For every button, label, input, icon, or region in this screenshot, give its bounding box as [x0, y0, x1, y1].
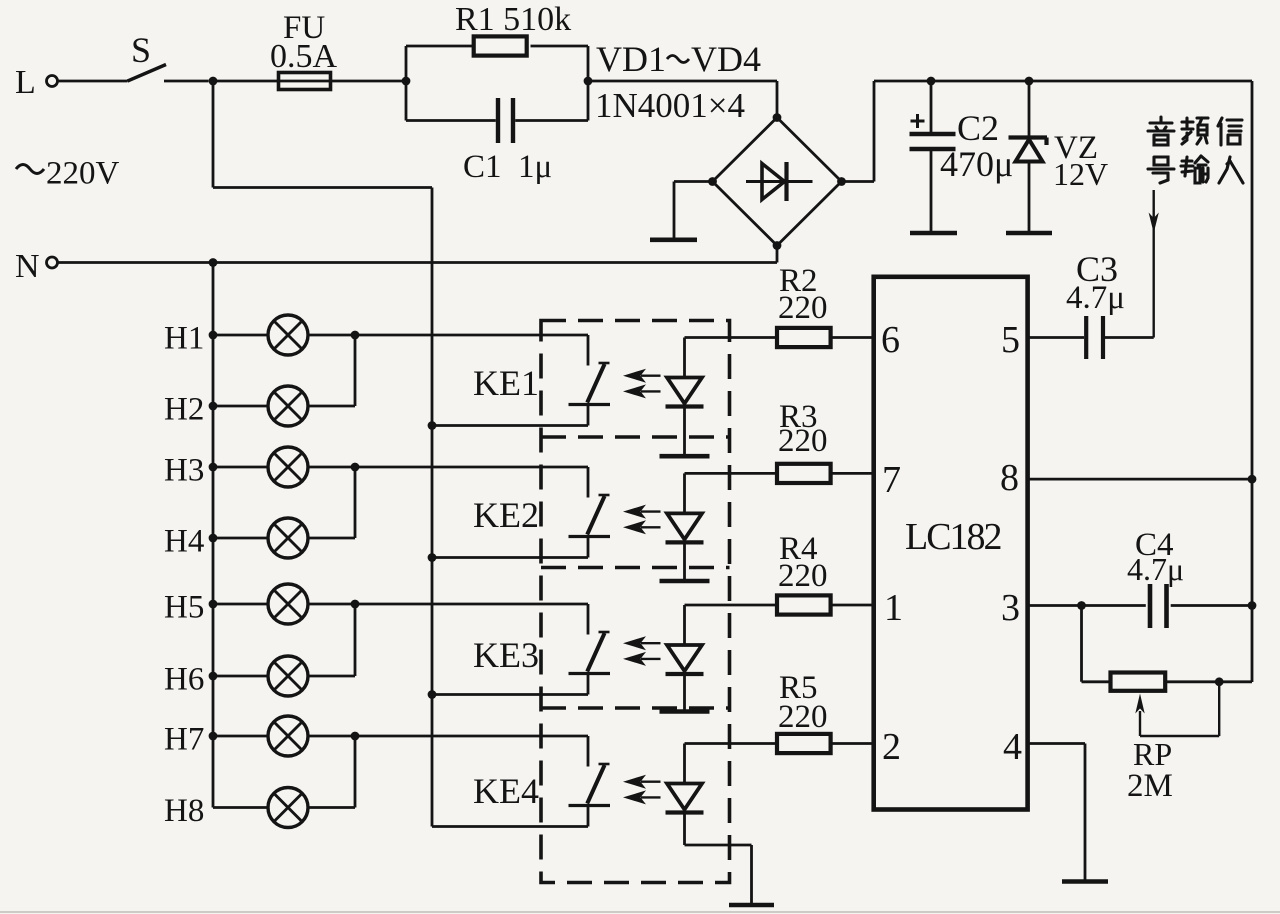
node N / lamp bus [209, 258, 218, 267]
wire L-branch down [212, 81, 215, 188]
wire L to switch [58, 80, 128, 83]
wire R5 to IC [831, 742, 874, 745]
resistor R2 220 [777, 328, 831, 347]
capacitor C4 4.7u [1148, 584, 1153, 628]
svg-text:H8: H8 [164, 793, 204, 829]
svg-text:12V: 12V [1053, 156, 1108, 192]
svg-text:4.7μ: 4.7μ [1066, 280, 1125, 316]
ground bar pin4 [1062, 879, 1108, 884]
wire lamp-pair join H1H2 [354, 335, 357, 406]
opto LED D2 [683, 473, 686, 513]
svg-text:3: 3 [1001, 587, 1020, 629]
svg-text:220: 220 [778, 290, 828, 326]
audio arrow head [1149, 213, 1159, 234]
opto arrows KE1 [623, 369, 646, 383]
wire KE2 switch to L-bus [432, 556, 588, 559]
svg-text:KE3: KE3 [473, 635, 539, 675]
svg-text:H7: H7 [164, 722, 204, 758]
wire lamps to KE3 switch [355, 603, 588, 606]
wire to bridge top [588, 80, 777, 83]
svg-text:RP: RP [1133, 736, 1172, 772]
capacitor C3 4.7u [1084, 316, 1088, 359]
dashed divider KE2/KE3 [541, 566, 730, 570]
bridge rectifier VD1-VD4 diamond [713, 118, 842, 246]
svg-text:H3: H3 [164, 453, 204, 489]
wire LED1 anode to R2 [685, 336, 778, 339]
resistor R4 220 [777, 595, 831, 614]
svg-text:2M: 2M [1127, 768, 1173, 804]
svg-text:S: S [131, 30, 151, 70]
wire R2 to IC [831, 336, 874, 339]
svg-text:4.7μ: 4.7μ [1127, 551, 1184, 587]
node H1 bus [209, 331, 218, 340]
svg-text:R1 510k: R1 510k [455, 1, 571, 38]
terminal N [47, 257, 58, 268]
resistor R3 220 [777, 464, 831, 483]
wire KE1 switch to L-bus [432, 424, 588, 427]
wire bridge-left to ground [674, 180, 713, 183]
LED D1 cathode to ground bar [683, 407, 686, 455]
dashed divider KE1/KE2 [541, 435, 730, 439]
svg-text:L: L [15, 64, 36, 101]
svg-text:7: 7 [882, 459, 901, 501]
wire lamps to KE2 switch [355, 466, 588, 469]
bridge node bottom [773, 241, 782, 250]
resistor R1 [474, 36, 527, 55]
node H3 bus [209, 463, 218, 472]
wire KE3 switch to L-bus [432, 693, 588, 696]
svg-text:220: 220 [778, 699, 828, 735]
capacitor C1 [496, 98, 500, 143]
wire KE4 switch to L-bus [432, 825, 588, 828]
svg-text:H4: H4 [164, 524, 204, 560]
wire LED3 anode to R4 [685, 604, 778, 607]
node RP right [1215, 677, 1224, 686]
IC U1 LC182 [874, 277, 1028, 810]
wire lamp-pair join H5H6 [354, 604, 357, 676]
node H7 bus [209, 732, 218, 741]
potentiometer RP 2M [1111, 673, 1166, 691]
switch S [128, 65, 167, 82]
svg-text:H1: H1 [164, 321, 204, 357]
svg-text:0.5A: 0.5A [270, 38, 338, 75]
node H4 bus [209, 534, 218, 543]
svg-text:8: 8 [1000, 457, 1019, 499]
wire pin8 to right bus [1028, 478, 1252, 481]
svg-text:KE2: KE2 [473, 495, 539, 535]
node KE3 L-bus [428, 690, 437, 699]
terminal L [47, 76, 58, 87]
opto arrows KE3 [623, 636, 646, 650]
node KE1 L-bus [428, 421, 437, 430]
svg-text:5: 5 [1001, 319, 1020, 361]
wire N line [58, 261, 778, 264]
opto LED D1 [683, 338, 686, 378]
C2 plus sign [911, 120, 925, 123]
svg-text:N: N [15, 248, 40, 285]
LED D3 cathode to ground bar [683, 674, 686, 710]
svg-text:VD4: VD4 [691, 39, 761, 79]
svg-text:6: 6 [881, 319, 900, 361]
DC positive rail wire [874, 80, 1252, 83]
node pin3 C4-left [1077, 601, 1086, 610]
node fuse-right [402, 77, 411, 86]
wire lamp-pair join H7H8 [354, 736, 357, 808]
opto LED D4 [683, 744, 686, 784]
node after switch [209, 77, 218, 86]
wire bridge-right up to DC rail [842, 180, 875, 183]
audio input arrow wire [1152, 190, 1154, 338]
opto arrows KE4 [623, 775, 646, 789]
wire to fuse and through [213, 80, 406, 83]
fuse FU 0.5A [279, 73, 331, 90]
ground bar C2 [910, 231, 957, 236]
resistor R5 220 [777, 734, 831, 753]
wire R3 to IC [831, 472, 874, 475]
svg-text:C1 1μ: C1 1μ [463, 149, 552, 185]
ground bar VZ [1006, 231, 1052, 236]
bottom border line [0, 911, 1280, 913]
node pin8 bus [1248, 475, 1257, 484]
RP wiper arrow [1139, 711, 1141, 736]
svg-text:4: 4 [1003, 726, 1022, 768]
svg-text:1: 1 [884, 587, 903, 629]
wire lamps to KE4 switch [355, 735, 588, 738]
ground bar bridge-left [650, 238, 697, 243]
node C4-right bus [1248, 601, 1257, 610]
opto LED D3 [683, 605, 686, 645]
wire pin4 to ground [1028, 742, 1085, 745]
node H2 bus [209, 402, 218, 411]
svg-text:220: 220 [778, 558, 828, 594]
svg-text:1N4001×4: 1N4001×4 [595, 86, 745, 125]
svg-text:220: 220 [778, 423, 828, 459]
wire LED2 anode to R3 [685, 472, 778, 475]
node H6 bus [209, 672, 218, 681]
svg-text:KE4: KE4 [473, 771, 539, 811]
zener diode VZ 12V [1025, 77, 1034, 86]
node KE2 L-bus [428, 553, 437, 562]
bridge diode symbol [746, 180, 813, 183]
right bus wire down [1251, 81, 1254, 682]
label audio signal input (chinese) [1148, 117, 1243, 183]
wire lamp-pair join H3H4 [354, 467, 357, 538]
svg-text:2: 2 [882, 726, 901, 768]
bridge node left [708, 177, 717, 186]
dashed divider KE3/KE4 [541, 706, 730, 710]
wire lamps to KE1 switch [355, 334, 588, 337]
svg-text:470μ: 470μ [940, 144, 1013, 184]
svg-text:C2: C2 [957, 108, 999, 148]
R1 C1 parallel loop wires [405, 46, 408, 121]
bridge node top [773, 113, 782, 122]
bridge node right [837, 177, 846, 186]
node R1C1-right [584, 77, 593, 86]
LED D4 cathode route to ground bar [683, 813, 686, 846]
svg-text:VD1: VD1 [596, 39, 666, 79]
wire R4 to IC [831, 604, 874, 607]
wire pin3 down to RP [1080, 606, 1083, 682]
svg-text:H2: H2 [164, 392, 204, 428]
svg-text:220V: 220V [46, 156, 120, 192]
capacitor C2 470u [927, 77, 936, 86]
wire pin3 net [1028, 604, 1146, 607]
solid-state relay dashed enclosure [541, 321, 730, 883]
LED D2 cathode to ground bar [683, 542, 686, 579]
wire L-bus vertical [431, 188, 434, 827]
label ~220V [16, 165, 44, 174]
svg-text:KE1: KE1 [473, 363, 539, 403]
wire lamp N-bus vertical [212, 263, 215, 808]
wire LED4 anode to R5 [685, 742, 778, 745]
svg-text:LC182: LC182 [905, 516, 1001, 558]
node H5 bus [209, 600, 218, 609]
opto arrows KE2 [623, 505, 646, 519]
svg-text:H5: H5 [164, 590, 204, 626]
svg-text:H6: H6 [164, 662, 204, 698]
